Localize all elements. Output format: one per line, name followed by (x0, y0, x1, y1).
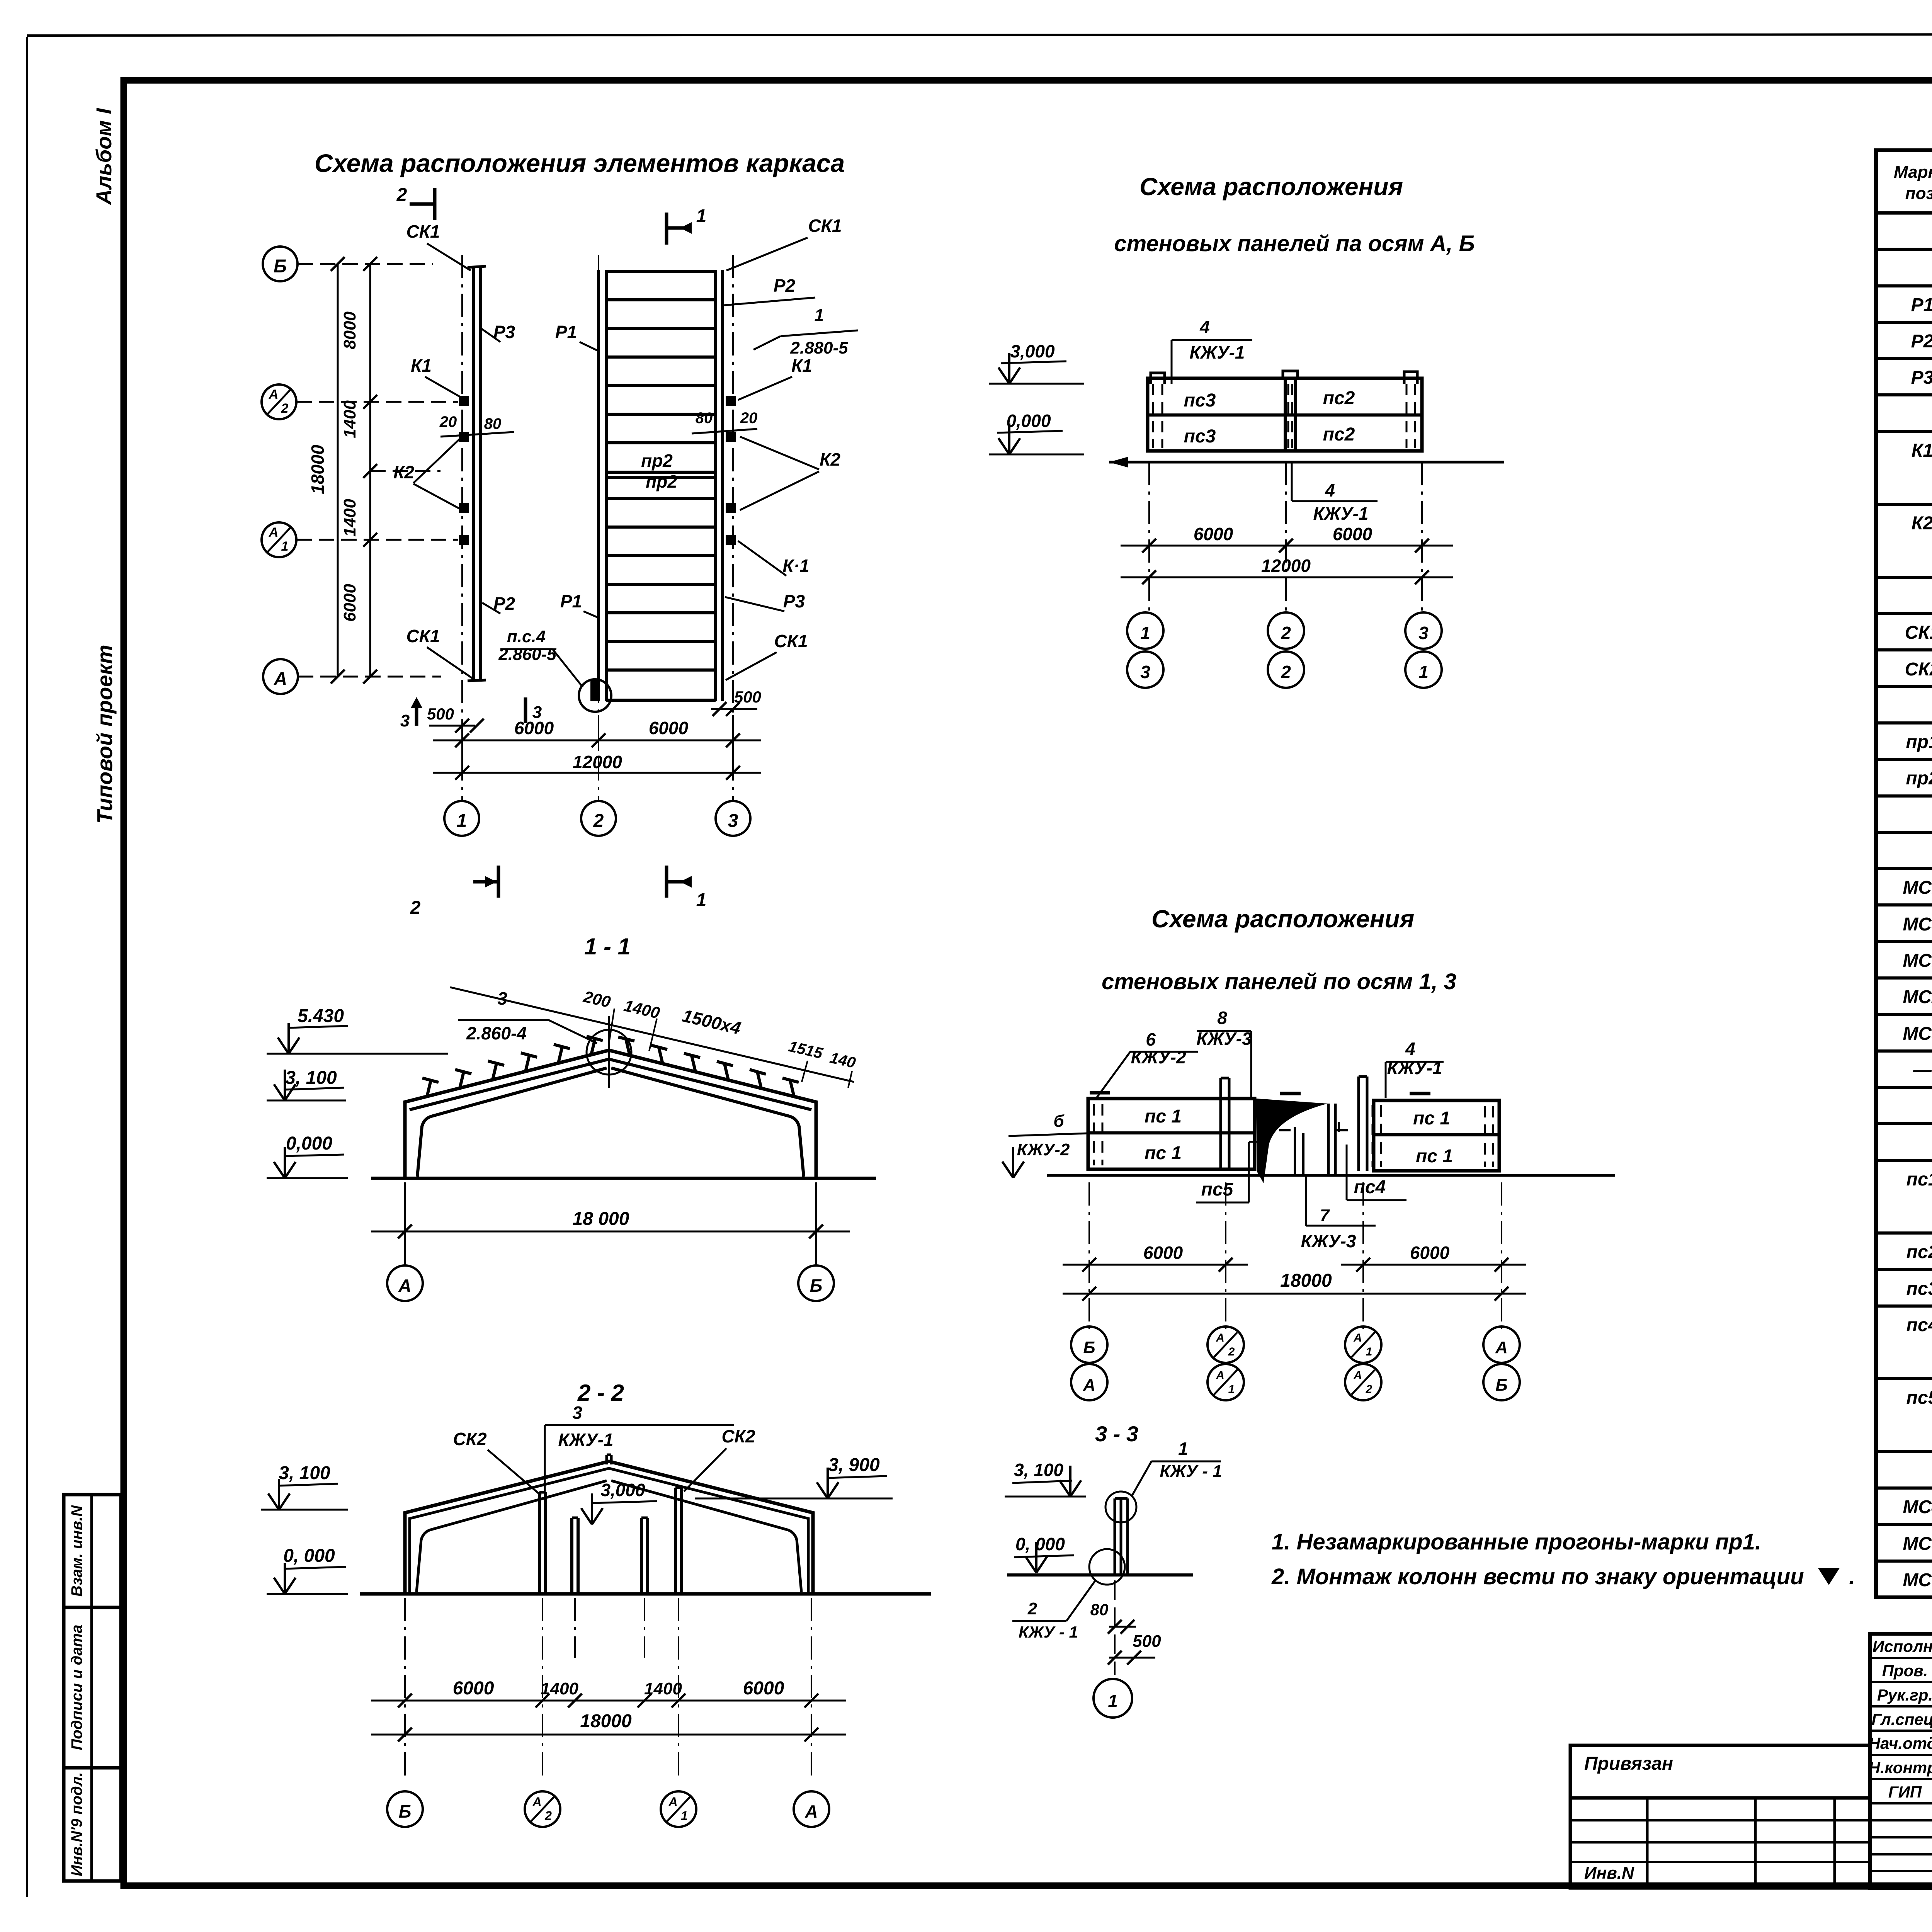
ground line 1-1 (371, 1177, 876, 1180)
svg-text:КЖУ-2: КЖУ-2 (1017, 1140, 1070, 1159)
svg-text:МС1: МС1 (1903, 951, 1932, 971)
svg-text:А: А (1216, 1332, 1225, 1344)
svg-text:МС4: МС4 (1903, 1497, 1932, 1517)
ground 3-3 (1007, 1573, 1193, 1577)
svg-text:пс2: пс2 (1323, 388, 1355, 408)
svg-text:пс 1: пс 1 (1416, 1146, 1453, 1167)
dash-dot axis verticals 2-2 (404, 1598, 406, 1777)
svg-text:СК1: СК1 (406, 221, 440, 241)
svg-text:2: 2 (544, 1809, 552, 1823)
svg-text:КЖУ - 1: КЖУ - 1 (1019, 1623, 1078, 1641)
svg-text:500: 500 (1133, 1632, 1161, 1651)
section mark 2 bottom (497, 866, 500, 898)
svg-text:1: 1 (1108, 1691, 1118, 1711)
svg-text:КЖУ-3: КЖУ-3 (1301, 1231, 1356, 1251)
leader to axis 1 circle (1114, 1580, 1116, 1675)
svg-text:2.860-5: 2.860-5 (498, 645, 556, 664)
svg-text:6000: 6000 (1410, 1243, 1450, 1263)
svg-text:2: 2 (396, 185, 407, 205)
svg-text:пр1: пр1 (1906, 732, 1932, 752)
svg-text:КЖУ-1: КЖУ-1 (1190, 342, 1245, 362)
svg-text:пс 1: пс 1 (1145, 1143, 1182, 1163)
svg-text:3,000: 3,000 (1010, 341, 1055, 361)
svg-text:500: 500 (427, 705, 454, 723)
dim line 6000+6000 (461, 723, 463, 750)
svg-text:12000: 12000 (573, 752, 622, 772)
row 16: blank (1876, 831, 1932, 834)
svg-text:Б: Б (810, 1276, 823, 1296)
axis circles AB bottom (1127, 612, 1163, 649)
svg-text:6000: 6000 (1143, 1243, 1183, 1263)
svg-text:А: А (1495, 1338, 1508, 1357)
svg-text:18 000: 18 000 (573, 1209, 629, 1229)
ladder rungs (progony) (606, 270, 716, 273)
svg-text:стеновых панелей па осям А: стеновых панелей па осям А, Б (1114, 231, 1475, 256)
svg-text:8: 8 (1217, 1008, 1227, 1028)
svg-text:пр2: пр2 (646, 471, 677, 492)
svg-text:Инв.N'9 подл.: Инв.N'9 подл. (68, 1772, 85, 1876)
bottom-left grid of title block (1570, 1798, 1870, 1888)
svg-text:пс 1: пс 1 (1145, 1106, 1182, 1127)
left margin stamp boxes (64, 1495, 121, 1607)
svg-text:80: 80 (1090, 1600, 1109, 1619)
svg-text:Р2: Р2 (774, 276, 796, 296)
svg-text:6000: 6000 (1333, 524, 1372, 544)
sheet outer thin border (26, 37, 28, 1897)
axis circle A/1 (262, 522, 296, 557)
section mark 1 bottom2 (665, 866, 668, 898)
svg-text:2: 2 (593, 811, 604, 831)
svg-text:2.860-4: 2.860-4 (466, 1023, 527, 1043)
svg-text:4: 4 (1405, 1039, 1415, 1059)
axis circles A B (1-1) (404, 1248, 406, 1265)
axis dashed verticals (1148, 462, 1150, 612)
slanted roof dim chain (450, 987, 854, 1082)
svg-text:Б: Б (1083, 1338, 1095, 1357)
axis circle A/2 (262, 384, 296, 419)
svg-text:4: 4 (1325, 480, 1335, 500)
svg-text:2. Монтаж колонн вести по з: 2. Монтаж колонн вести по знаку ориентац… (1271, 1564, 1804, 1589)
axis circles 1 2 3 (444, 801, 479, 836)
svg-text:0, 000: 0, 000 (1015, 1534, 1065, 1554)
privyazan box (1570, 1745, 1870, 1798)
svg-text:Пров.: Пров. (1882, 1662, 1928, 1680)
frame inner haunched profile 1-1 (417, 1068, 607, 1177)
svg-text:2: 2 (1281, 623, 1291, 643)
outer columns 2-2 (405, 1461, 813, 1594)
svg-text:КЖУ-2: КЖУ-2 (1131, 1047, 1186, 1067)
svg-text:К·1: К·1 (782, 556, 809, 576)
svg-text:пс1: пс1 (1906, 1169, 1932, 1190)
svg-text:пс3: пс3 (1184, 426, 1216, 447)
svg-text:А: А (1216, 1369, 1225, 1382)
svg-text:Нач.отд.: Нач.отд. (1869, 1734, 1932, 1752)
section mark 2 top (433, 188, 437, 220)
svg-text:пс4: пс4 (1354, 1177, 1386, 1197)
svg-text:А: А (269, 387, 279, 402)
svg-text:4: 4 (1199, 317, 1210, 337)
svg-text:Б: Б (274, 256, 287, 277)
post 3-3 (1114, 1498, 1116, 1575)
svg-text:3: 3 (1418, 623, 1429, 643)
svg-text:А: А (532, 1795, 541, 1809)
svg-text:Р1: Р1 (560, 591, 582, 611)
vertical dim line 18000 (337, 264, 339, 677)
post 1 dashed (1152, 384, 1154, 448)
ridge peak 2-2 (607, 1454, 611, 1456)
post 3 dashed (1406, 384, 1408, 448)
svg-text:1: 1 (681, 1809, 688, 1823)
svg-text:Схема расположения: Схема расположения (1151, 905, 1414, 933)
tall stoiki SK2 (538, 1492, 541, 1594)
svg-text:К2: К2 (1912, 513, 1932, 534)
svg-text:СК2: СК2 (1905, 659, 1932, 680)
svg-text:18000: 18000 (580, 1711, 632, 1731)
svg-text:1: 1 (1228, 1383, 1235, 1396)
svg-text:2: 2 (1228, 1345, 1235, 1358)
K nodes on left wall (459, 396, 469, 406)
svg-text:пр2: пр2 (1906, 768, 1932, 789)
svg-text:6000: 6000 (453, 1678, 494, 1699)
svg-text:К1: К1 (1912, 440, 1932, 461)
section marks 3 bottom (415, 700, 418, 726)
bottom circle 3-3 (1089, 1549, 1125, 1585)
svg-text:КЖУ-3: КЖУ-3 (1197, 1029, 1252, 1049)
dashes left edge (1093, 1104, 1095, 1165)
svg-text:1: 1 (696, 206, 707, 226)
svg-text:20: 20 (740, 410, 758, 427)
svg-text:пс3: пс3 (1184, 390, 1216, 411)
dim 18000 (2-2) (371, 1734, 846, 1736)
svg-text:поз.: поз. (1905, 184, 1932, 203)
svg-text:.: . (1849, 1564, 1855, 1589)
roof purlin ticks right slope (626, 1039, 630, 1056)
svg-text:1: 1 (281, 539, 289, 554)
svg-text:Б: Б (399, 1801, 412, 1821)
svg-text:А: А (1353, 1332, 1362, 1344)
svg-text:0, 000: 0, 000 (283, 1546, 335, 1566)
svg-text:Р2: Р2 (1911, 331, 1932, 352)
svg-text:Н.контр.: Н.контр. (1869, 1759, 1932, 1777)
svg-text:6000: 6000 (743, 1678, 784, 1699)
svg-text:0,000: 0,000 (286, 1133, 332, 1154)
svg-text:К2: К2 (393, 462, 414, 482)
svg-text:пс3: пс3 (1906, 1279, 1932, 1299)
center gap lines (1327, 1104, 1330, 1175)
ground line AB (1109, 461, 1504, 464)
axis circles 2-2 (387, 1791, 423, 1827)
svg-text:Инв.N: Инв.N (1584, 1864, 1634, 1883)
svg-text:20: 20 (439, 413, 457, 430)
svg-text:12000: 12000 (1261, 556, 1311, 576)
short middle posts (570, 1518, 573, 1594)
svg-text:пс5: пс5 (1906, 1388, 1932, 1408)
dim 18000 (1,3) (1063, 1293, 1526, 1295)
svg-text:СК2: СК2 (453, 1429, 486, 1449)
small arrow marks at separator (1279, 1129, 1291, 1131)
svg-text:б: б (1053, 1112, 1065, 1131)
svg-text:А: А (1083, 1376, 1095, 1395)
svg-text:А: А (668, 1795, 677, 1809)
right ladder right rail (714, 270, 717, 701)
svg-text:6000: 6000 (649, 718, 689, 738)
svg-text:6000: 6000 (514, 718, 554, 738)
svg-text:3, 100: 3, 100 (1014, 1460, 1063, 1480)
small top caps on blocks (1090, 1091, 1110, 1095)
dim 6000 6000 AB (1121, 545, 1453, 547)
label 7/KZHU-3 (1305, 1175, 1307, 1226)
svg-text:5.430: 5.430 (298, 1006, 344, 1026)
svg-text:КЖУ - 1: КЖУ - 1 (1160, 1462, 1222, 1481)
svg-text:3: 3 (400, 711, 410, 730)
mid post with cap (1,3 left) (1219, 1078, 1222, 1169)
K nodes on right rail (726, 396, 736, 406)
svg-text:3: 3 (1140, 662, 1150, 682)
svg-text:3 - 3: 3 - 3 (1095, 1422, 1138, 1446)
svg-text:1400: 1400 (644, 1679, 682, 1698)
svg-text:Привязан: Привязан (1584, 1753, 1673, 1774)
svg-text:К1: К1 (411, 355, 432, 376)
svg-text:СК1: СК1 (808, 216, 842, 236)
svg-text:Схема располoжения: Схема располoжения (1139, 173, 1403, 201)
svg-text:1: 1 (1140, 623, 1150, 643)
frame outer profile 1-1 (405, 1050, 816, 1178)
svg-text:КЖУ-1: КЖУ-1 (558, 1430, 614, 1450)
bottom corner node circle (p.s.4) (579, 679, 611, 712)
svg-text:0,000: 0,000 (1006, 411, 1051, 431)
axis circles (1,3) (1071, 1327, 1107, 1363)
svg-text:пс5: пс5 (1201, 1179, 1234, 1200)
svg-text:80: 80 (484, 415, 502, 432)
svg-text:3: 3 (728, 811, 738, 831)
svg-text:ГИП: ГИП (1888, 1783, 1922, 1801)
svg-text:1: 1 (1418, 662, 1429, 682)
spec table outer border (1876, 150, 1932, 1597)
ground line 2-2 (360, 1592, 931, 1596)
ridge node circle (587, 1030, 631, 1075)
svg-text:КЖУ-1: КЖУ-1 (1387, 1058, 1442, 1078)
svg-text:1: 1 (1178, 1439, 1188, 1459)
svg-text:пс2: пс2 (1323, 424, 1355, 445)
axis circle A (263, 659, 298, 694)
axis dash verticals (1,3) (1088, 1182, 1090, 1329)
svg-text:Рук.гр.: Рук.гр. (1877, 1686, 1932, 1704)
svg-text:пр2: пр2 (641, 451, 673, 471)
axis dash-dot verticals 1,2,3 (461, 255, 463, 802)
svg-text:пс2: пс2 (1906, 1242, 1932, 1262)
svg-text:Взам. инв.N: Взам. инв.N (68, 1505, 85, 1597)
svg-text:МС6: МС6 (1903, 1570, 1932, 1590)
svg-text:Типовой проект: Типовой проект (92, 645, 117, 823)
svg-text:Подписи и дата: Подписи и дата (68, 1625, 85, 1750)
post right with cap (1357, 1077, 1360, 1171)
dims 6000 6000 (1,3) (1063, 1264, 1159, 1266)
section mark 1 top (665, 213, 668, 245)
svg-text:К1: К1 (791, 355, 812, 376)
svg-text:18000: 18000 (308, 445, 328, 494)
svg-text:1. Незамаркированные прогоны-: 1. Незамаркированные прогоны-марки пр1. (1272, 1529, 1761, 1554)
svg-text:Альбом I: Альбом I (92, 108, 116, 206)
right blockpart (1,3) (1374, 1100, 1499, 1171)
svg-text:3, 100: 3, 100 (285, 1068, 337, 1088)
svg-text:К2: К2 (820, 449, 840, 469)
label 4/KZHU-1 bottom (1291, 462, 1293, 501)
svg-text:Р3: Р3 (783, 591, 805, 611)
svg-text:3: 3 (572, 1403, 582, 1423)
svg-text:А: А (804, 1801, 818, 1821)
ground line (1,3) (1047, 1174, 1615, 1177)
svg-text:3, 100: 3, 100 (279, 1463, 330, 1483)
svg-text:1 - 1: 1 - 1 (584, 934, 631, 959)
vertical dim line segments 8000/1400/1400/6000 (369, 264, 371, 677)
double rung PR2 (606, 471, 716, 474)
svg-text:8000: 8000 (340, 311, 359, 349)
svg-text:СК1: СК1 (406, 626, 440, 646)
svg-text:1: 1 (696, 890, 707, 910)
right edge dashes (1484, 1106, 1486, 1167)
svg-text:СК2: СК2 (721, 1426, 755, 1446)
svg-text:Р3: Р3 (1911, 367, 1932, 388)
svg-text:МС3: МС3 (1903, 914, 1932, 935)
svg-text:2: 2 (410, 898, 421, 918)
left panel block (1,3) (1088, 1099, 1255, 1169)
svg-text:1400: 1400 (541, 1679, 578, 1698)
svg-text:А: А (398, 1276, 411, 1296)
svg-text:2: 2 (1027, 1599, 1037, 1618)
svg-text:МС3: МС3 (1903, 1024, 1932, 1044)
svg-text:Р1: Р1 (555, 322, 577, 342)
dim 12000 AB (1121, 577, 1453, 578)
svg-text:СК1: СК1 (1905, 622, 1932, 643)
svg-text:1: 1 (1366, 1345, 1372, 1358)
level 0.000 hint (left small) (1012, 1147, 1014, 1178)
roof purlin ticks left slope (427, 1080, 431, 1097)
svg-text:стенoвых панелей по осям: стенoвых панелей по осям 1, 3 (1102, 969, 1456, 994)
svg-text:МС1: МС1 (1903, 878, 1932, 898)
post 2 (middle) (1284, 378, 1287, 451)
inner frame lines 2-2 (417, 1481, 607, 1592)
dim line 12000 (461, 750, 463, 781)
svg-text:А: А (269, 525, 279, 540)
svg-text:СК1: СК1 (774, 631, 808, 651)
top circle 3-3 (1105, 1492, 1136, 1522)
svg-text:Схема располoжения элементов: Схема располoжения элементов каркаса (315, 149, 845, 177)
svg-text:6000: 6000 (340, 584, 359, 622)
svg-text:А: А (1353, 1369, 1362, 1382)
svg-text:КЖУ-1: КЖУ-1 (1313, 503, 1369, 524)
svg-text:МС2: МС2 (1903, 987, 1932, 1007)
svg-text:7: 7 (1320, 1206, 1330, 1225)
svg-text:2.880-5: 2.880-5 (790, 338, 848, 357)
svg-text:6: 6 (1146, 1029, 1156, 1049)
svg-text:80: 80 (696, 410, 713, 427)
svg-text:2: 2 (1281, 662, 1291, 682)
svg-text:1400: 1400 (340, 499, 359, 537)
svg-text:пс 1: пс 1 (1413, 1108, 1450, 1129)
dim 18000 (1-1) (404, 1182, 406, 1248)
svg-text:Р1: Р1 (1911, 295, 1932, 315)
right ladder left rail P1 (597, 270, 600, 701)
svg-text:1: 1 (815, 306, 824, 325)
svg-text:А: А (274, 669, 287, 689)
svg-text:18000: 18000 (1280, 1270, 1332, 1291)
signature table (1870, 1634, 1932, 1888)
svg-text:Марка,: Марка, (1894, 163, 1932, 182)
dims 6000/1400/1400/6000 (371, 1700, 846, 1702)
svg-text:2: 2 (281, 401, 289, 416)
svg-text:Исполн.: Исполн. (1872, 1637, 1932, 1655)
svg-text:2 - 2: 2 - 2 (577, 1380, 624, 1406)
svg-text:2: 2 (1366, 1383, 1372, 1396)
svg-text:6000: 6000 (1194, 524, 1233, 544)
svg-text:МС5: МС5 (1903, 1534, 1932, 1554)
svg-text:Б: Б (1495, 1376, 1507, 1395)
spec table header row (1876, 211, 1932, 215)
svg-text:—: — (1913, 1060, 1932, 1080)
svg-text:пс4: пс4 (1906, 1315, 1932, 1335)
svg-text:3, 900: 3, 900 (828, 1455, 880, 1475)
svg-text:1400: 1400 (340, 400, 359, 438)
svg-text:Гл.спец.: Гл.спец. (1871, 1710, 1932, 1728)
svg-text:п.с.4: п.с.4 (507, 627, 546, 646)
panel block AB (1148, 378, 1422, 451)
svg-text:1: 1 (457, 811, 467, 831)
left wall panel (P3/P2) (472, 266, 475, 681)
axis circle B (263, 247, 298, 281)
axis leader lines (298, 263, 433, 265)
dark gate wedge (1256, 1099, 1328, 1183)
